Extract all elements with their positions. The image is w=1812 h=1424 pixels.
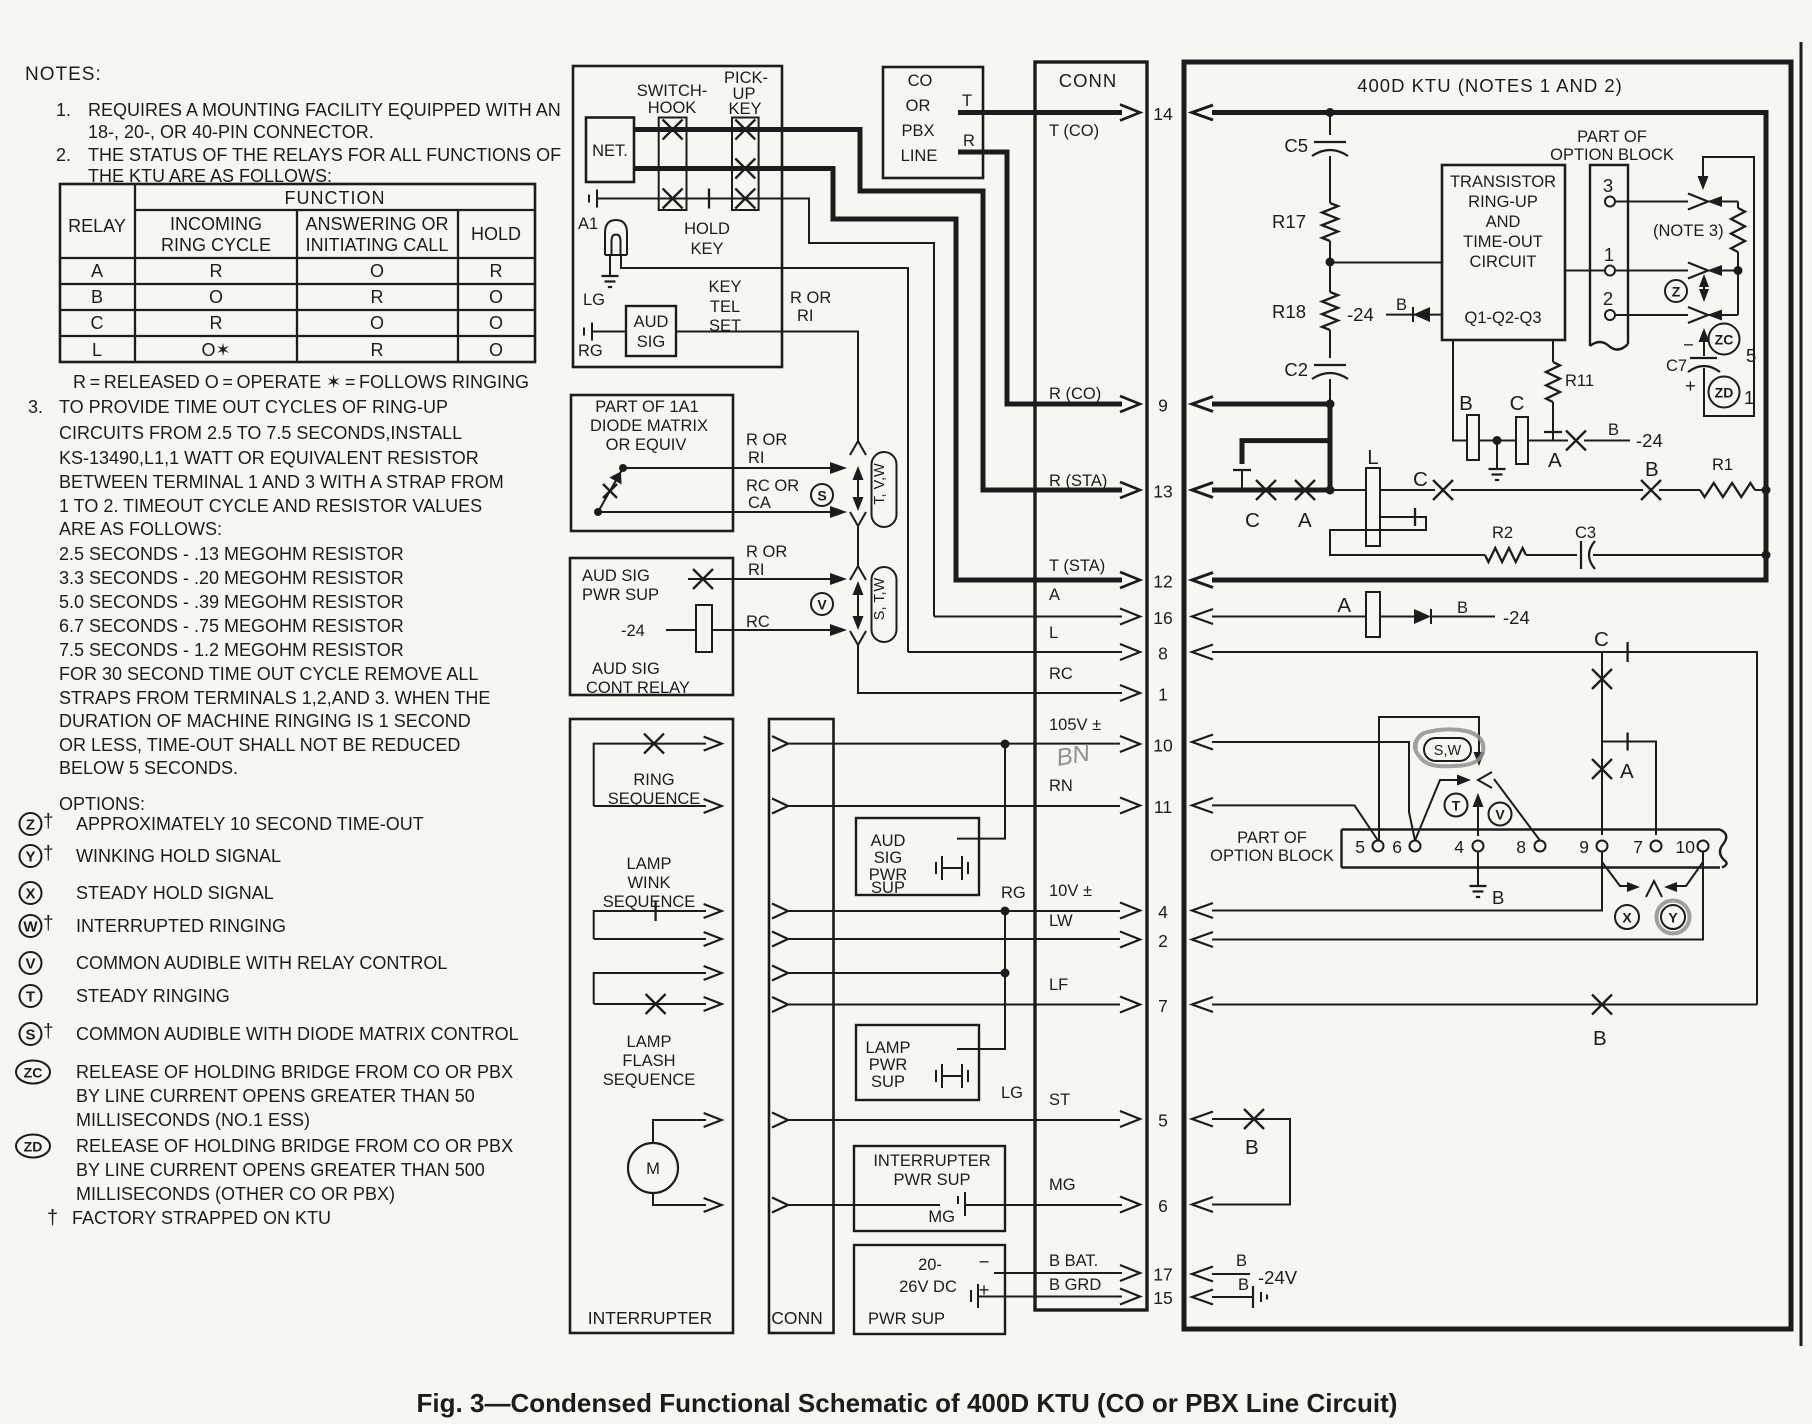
svg-text:A: A [1548,449,1562,472]
svg-text:R: R [210,313,223,333]
svg-text:FLASH: FLASH [622,1052,675,1070]
svg-text:M: M [646,1160,660,1178]
svg-text:B: B [1645,458,1659,481]
wire strap chain middle [850,512,866,526]
battery at B ground row [1252,1286,1254,1308]
svg-text:†: † [47,1207,58,1229]
svg-text:2.: 2. [56,145,71,165]
svg-text:R OR: R OR [746,431,787,449]
svg-text:16: 16 [1153,608,1172,628]
node option ZD [16,1135,50,1158]
svg-text:LG: LG [1001,1084,1023,1102]
relay contact break on branch [1233,469,1251,471]
svg-text:ARE AS FOLLOWS:: ARE AS FOLLOWS: [59,519,222,539]
node 400D KTU box [1184,62,1791,1329]
node option W [20,915,42,937]
svg-text:ZD: ZD [24,1139,43,1155]
svg-text:MILLISECONDS (NO.1 ESS): MILLISECONDS (NO.1 ESS) [76,1110,310,1130]
ground below B/C coils [1496,441,1498,470]
svg-text:8: 8 [1158,644,1168,664]
battery feed for lamp lead [588,195,590,203]
svg-text:SEQUENCE: SEQUENCE [608,790,701,808]
svg-text:PWR: PWR [869,1056,908,1074]
svg-text:T: T [26,989,35,1006]
svg-text:A: A [1049,586,1060,604]
svg-text:LAMP: LAMP [866,1039,911,1057]
svg-text:S,W: S,W [1434,743,1462,759]
svg-text:400D KTU (NOTES 1 AND 2): 400D KTU (NOTES 1 AND 2) [1357,75,1623,96]
node oval S,T,W [872,567,897,642]
svg-text:8: 8 [1516,837,1526,857]
svg-text:LINE: LINE [901,147,938,165]
wire lamp lead to terminal 8 L [908,651,1122,653]
svg-text:O✶: O✶ [201,340,230,360]
page edge artifact line [1800,42,1803,1346]
resistor R18 [1329,262,1331,292]
node option circle ZC [1709,324,1740,355]
wire lamp right leg to L lead [621,255,908,652]
svg-text:CO: CO [908,72,933,90]
node terminal 9 R (CO) [1120,396,1140,412]
svg-text:STRAPS FROM TERMINALS 1,2,AND: STRAPS FROM TERMINALS 1,2,AND 3. WHEN TH… [59,688,490,708]
svg-text:A: A [91,261,103,281]
switch arm arrow from option 6 [1415,780,1462,841]
svg-text:INITIATING CALL: INITIATING CALL [306,235,449,255]
svg-text:3.3 SECONDS - .20 MEGOHM RESIS: 3.3 SECONDS - .20 MEGOHM RESISTOR [59,568,404,588]
arrow from option 4 to switch [1477,801,1479,836]
wire LF row [1212,1004,1757,1006]
node option circle V [1489,803,1512,826]
svg-text:OPTION BLOCK: OPTION BLOCK [1550,146,1674,164]
wire interrupter conn lead [772,736,788,751]
ground LG [602,275,619,277]
node oval T,V,W [872,452,897,527]
node terminal 6 MG [1120,1197,1140,1213]
node terminal 16 A [1120,609,1140,625]
svg-text:ZC: ZC [1715,332,1734,348]
svg-text:R: R [371,287,384,307]
svg-text:COMMON AUDIBLE WITH RELAY CONT: COMMON AUDIBLE WITH RELAY CONTROL [76,953,447,973]
svg-text:S, T,W: S, T,W [872,577,888,620]
svg-text:-24: -24 [1347,304,1374,325]
svg-text:TO PROVIDE TIME OUT CYCLES OF: TO PROVIDE TIME OUT CYCLES OF RING-UP [59,397,448,417]
node option circle X [1615,905,1639,929]
wire L row [1212,652,1757,1005]
svg-text:C: C [1413,468,1428,491]
svg-text:6.7 SECONDS - .75 MEGOHM RESIS: 6.7 SECONDS - .75 MEGOHM RESISTOR [59,616,404,636]
node INTERRUPTER box [570,719,733,1333]
node terminal 10 105V ± [1120,736,1140,752]
svg-text:R2: R2 [1492,524,1513,542]
svg-text:B: B [91,287,103,307]
node option block terminal 7 [1651,841,1662,852]
node option Y [20,845,42,867]
svg-text:ANSWERING OR: ANSWERING OR [305,214,448,234]
svg-text:105V ±: 105V ± [1049,716,1101,734]
svg-text:C: C [1245,509,1260,532]
svg-text:7.5 SECONDS - 1.2 MEGOHM RESIS: 7.5 SECONDS - 1.2 MEGOHM RESISTOR [59,640,404,660]
node option circle ZD [1709,377,1740,408]
svg-text:B BAT.: B BAT. [1049,1252,1098,1270]
svg-text:T (STA): T (STA) [1049,557,1105,575]
svg-text:R18: R18 [1272,301,1306,322]
svg-text:R OR: R OR [746,543,787,561]
svg-text:COMMON AUDIBLE WITH DIODE MATR: COMMON AUDIBLE WITH DIODE MATRIX CONTROL [76,1024,519,1044]
svg-text:KEY: KEY [690,240,723,258]
wire T(CO) thick to terminal 14 [958,110,1122,115]
svg-text:R1: R1 [1712,456,1733,474]
node transistor ring-up box Q1-Q2-Q3 [1442,165,1565,340]
svg-text:X: X [25,886,35,903]
diode matrix element [619,464,627,472]
resistor (NOTE 3) [1737,202,1739,209]
node CONN connector column (interrupter) [769,719,834,1333]
node CO OR PBX LINE box [883,67,983,178]
svg-text:RELAY: RELAY [68,216,126,236]
svg-text:L: L [1367,446,1378,469]
svg-text:KEY: KEY [728,100,761,118]
svg-text:4: 4 [1158,902,1168,922]
node option S [20,1023,42,1045]
svg-text:PWR SUP: PWR SUP [868,1310,945,1328]
svg-text:(NOTE 3): (NOTE 3) [1653,222,1724,240]
wire R OR RI from diode matrix [623,467,838,469]
strap arrow from 10 [1676,862,1703,886]
node terminal 13 R (STA) [1120,482,1140,498]
svg-text:RELEASE OF HOLDING BRIDGE FROM: RELEASE OF HOLDING BRIDGE FROM CO OR PBX [76,1136,513,1156]
svg-text:1.: 1. [56,100,71,120]
wire lamp/hold-key lead [597,199,934,617]
node option circle Z [1665,280,1687,302]
wire interrupter conn lead [772,1113,788,1128]
svg-text:RI: RI [748,449,765,467]
svg-text:SIG: SIG [637,333,665,351]
svg-text:R: R [371,340,384,360]
node KEY TEL SET box [573,66,782,367]
wire T lead from NET (thick) [634,130,1122,491]
svg-text:5: 5 [1355,837,1365,857]
svg-text:W: W [23,919,38,936]
svg-text:AND: AND [1486,213,1521,231]
svg-text:2.5 SECONDS - .13 MEGOHM RESIS: 2.5 SECONDS - .13 MEGOHM RESISTOR [59,544,404,564]
svg-text:RG: RG [1001,884,1026,902]
svg-text:C2: C2 [1284,359,1308,380]
capacitor C2 [1329,330,1331,358]
wire interrupter conn lead [772,904,788,919]
ground B below option 4 [1477,852,1479,887]
wire RC OR CA from diode matrix [598,511,838,513]
svg-text:B: B [1459,392,1473,415]
svg-text:C: C [1594,628,1609,651]
svg-text:T: T [1452,798,1461,814]
wire MG lead [788,1204,940,1206]
svg-text:5: 5 [1158,1111,1168,1131]
node option ZC [16,1061,50,1084]
svg-text:-24V: -24V [1258,1267,1298,1288]
svg-text:FACTORY STRAPPED ON KTU: FACTORY STRAPPED ON KTU [72,1208,331,1228]
svg-text:WINK: WINK [627,874,670,892]
strap double arrow Z [1703,280,1705,296]
svg-text:RING-UP: RING-UP [1468,193,1538,211]
svg-text:SWITCH-: SWITCH- [637,82,708,100]
node option T [20,985,42,1007]
wire R(CO) thick to terminal 9 [958,152,1122,404]
node terminal 1 RC [1120,685,1140,701]
wire LW row up to option 10 [1212,852,1703,940]
lamp flash sequence contacts [594,973,706,1004]
svg-text:V: V [1495,807,1505,823]
svg-text:B: B [1236,1252,1247,1270]
svg-text:INTERRUPTED RINGING: INTERRUPTED RINGING [76,916,286,936]
svg-text:1: 1 [1158,685,1168,705]
node terminal 15 B GRD [1120,1289,1140,1305]
svg-text:Y: Y [25,849,35,866]
svg-text:SUP: SUP [871,1073,905,1091]
svg-text:RG: RG [578,342,603,360]
svg-text:FUNCTION: FUNCTION [285,188,386,208]
contact C on R(STA) row [1256,480,1276,500]
wire RN row to option 5 [1212,805,1378,840]
node AUD SIG PWR SUP box (mid) [856,818,979,895]
wire RG to AUD SIG [592,331,626,333]
node option block terminal 8 [1535,841,1546,852]
wire B GRD to terminal 15 [978,1296,1122,1298]
svg-text:DURATION OF MACHINE RINGING IS: DURATION OF MACHINE RINGING IS 1 SECOND [59,711,471,731]
svg-text:LF: LF [1049,976,1068,994]
contact A on R(STA) row [1295,480,1315,500]
svg-text:WINKING HOLD SIGNAL: WINKING HOLD SIGNAL [76,846,281,866]
svg-text:HOLD: HOLD [471,224,521,244]
svg-text:RI: RI [748,561,765,579]
svg-text:15: 15 [1153,1288,1172,1308]
node option block terminal 10 [1698,841,1709,852]
svg-text:OPTION BLOCK: OPTION BLOCK [1210,847,1334,865]
svg-text:CA: CA [748,494,771,512]
svg-text:C: C [1510,392,1525,415]
svg-text:CIRCUIT: CIRCUIT [1470,253,1537,271]
svg-text:17: 17 [1153,1265,1172,1285]
svg-text:−: − [1683,334,1694,355]
svg-text:AUD SIG: AUD SIG [592,660,660,678]
svg-text:O: O [489,313,503,333]
svg-text:NOTES:: NOTES: [25,64,102,85]
wire T(CO) row in KTU (thick loop) [1212,113,1766,581]
svg-text:RI: RI [797,307,814,325]
svg-text:PART OF: PART OF [1577,128,1647,146]
svg-text:T: T [962,92,972,110]
svg-text:LG: LG [583,291,605,309]
svg-text:ZD: ZD [1715,385,1734,401]
svg-text:18-, 20-, OR 40-PIN CONNECTOR.: 18-, 20-, OR 40-PIN CONNECTOR. [88,122,374,142]
svg-text:REQUIRES A MOUNTING FACILITY E: REQUIRES A MOUNTING FACILITY EQUIPPED WI… [88,100,561,120]
svg-text:RC OR: RC OR [746,477,799,495]
node S,W strap box [1379,717,1479,841]
node terminal 7 LF [1120,997,1140,1013]
svg-text:LW: LW [1049,912,1073,930]
svg-text:L: L [1049,624,1058,642]
node PART OF 1A1 DIODE MATRIX box [571,395,733,531]
svg-text:MG: MG [928,1208,955,1226]
node terminal 17 B BAT. [1120,1265,1140,1281]
node terminal 2 LW [1120,932,1140,948]
node option X [20,882,42,904]
wire interrupter conn lead [772,932,788,947]
svg-text:R OR: R OR [790,289,831,307]
svg-text:A1: A1 [578,215,598,233]
svg-text:TEL: TEL [710,298,740,316]
svg-text:PWR SUP: PWR SUP [582,586,659,604]
strap double arrow T,V,W [857,472,859,505]
svg-text:11: 11 [1154,797,1172,817]
svg-text:1 TO 2. TIMEOUT CYCLE AND RESI: 1 TO 2. TIMEOUT CYCLE AND RESISTOR VALUE… [59,496,482,516]
contact A on -24 row [1553,440,1568,442]
svg-text:V: V [817,597,827,613]
svg-text:NET.: NET. [592,142,628,160]
wire ST row loop to MG row [1212,1119,1290,1205]
svg-text:26V DC: 26V DC [899,1278,957,1296]
svg-text:PART OF: PART OF [1237,829,1307,847]
node terminal 12 T (STA) [1120,572,1140,588]
svg-text:5: 5 [1746,345,1756,366]
svg-text:6: 6 [1392,837,1402,857]
svg-text:R17: R17 [1272,211,1306,232]
relay coil L on R(STA) row [1330,489,1366,491]
L coil secondary path to R2/C3 [1330,517,1485,555]
svg-text:R: R [490,261,503,281]
svg-text:C7: C7 [1666,357,1687,375]
svg-text:Y: Y [1668,910,1678,926]
svg-text:CONN: CONN [771,1308,823,1328]
svg-text:R: R [963,132,975,150]
svg-text:DIODE MATRIX: DIODE MATRIX [590,417,708,435]
svg-text:PWR SUP: PWR SUP [893,1171,970,1189]
svg-text:R = RELEASED O = OPERATE ✶ =: R = RELEASED O = OPERATE ✶ = FOLLOWS RIN… [73,372,529,392]
wire option terminal 2 row [1615,314,1688,316]
wire transistor to option terminal 1 [1565,270,1605,272]
svg-text:ST: ST [1049,1091,1070,1109]
node option block terminal 6 [1410,841,1421,852]
svg-text:CONN: CONN [1059,70,1117,91]
svg-text:PART OF 1A1: PART OF 1A1 [595,398,699,416]
wire A relay row [1212,616,1366,618]
svg-text:SIG: SIG [874,849,902,867]
svg-text:4: 4 [1454,837,1464,857]
svg-text:OR LESS, TIME-OUT SHALL NOT BE: OR LESS, TIME-OUT SHALL NOT BE REDUCED [59,735,460,755]
battery MG [957,1196,959,1204]
svg-text:BY LINE CURRENT OPENS GREATER: BY LINE CURRENT OPENS GREATER THAN 500 [76,1160,485,1180]
svg-text:3.: 3. [28,397,43,417]
wire interrupter conn lead [772,997,788,1012]
wire lamp pwr sup to 10V [957,911,1005,1049]
ring sequence contacts [594,744,706,806]
battery LG in lamp pwr sup [935,1070,937,1082]
svg-text:C5: C5 [1284,135,1308,156]
relay coil A [1366,592,1380,637]
svg-text:THE STATUS OF THE RELAYS FOR A: THE STATUS OF THE RELAYS FOR ALL FUNCTIO… [88,145,561,165]
svg-text:CIRCUITS FROM 2.5 TO 7.5 SECON: CIRCUITS FROM 2.5 TO 7.5 SECONDS,INSTALL [59,423,462,443]
svg-text:R: R [210,261,223,281]
svg-text:-24: -24 [1503,607,1530,628]
svg-text:O: O [370,261,384,281]
svg-text:KEY: KEY [708,278,741,296]
wire option terminal 3 row [1615,201,1688,203]
svg-text:5.0 SECONDS - .39 MEGOHM RESIS: 5.0 SECONDS - .39 MEGOHM RESISTOR [59,592,404,612]
svg-text:7: 7 [1158,996,1168,1016]
svg-text:SEQUENCE: SEQUENCE [603,1071,696,1089]
svg-text:RC: RC [1049,665,1073,683]
svg-text:X: X [1622,910,1632,926]
wire transistor bottom left to relay row [1453,340,1467,441]
svg-text:AUD SIG: AUD SIG [582,567,650,585]
pencil scribble around Y [1657,901,1690,934]
wire to transistor circuit [1330,262,1442,264]
node terminal 5 ST [1120,1111,1140,1127]
wire B ground row [1212,1296,1253,1298]
contact C on branch to 9 [1601,652,1603,835]
capacitor C5 [1329,113,1331,136]
svg-text:10: 10 [1153,736,1173,756]
svg-text:3: 3 [1603,175,1613,196]
node option circle V [811,593,833,615]
wire option terminal 1 arrows [1688,263,1708,279]
svg-text:L: L [92,340,102,360]
resistor R11 [1552,340,1554,362]
node AUD SIG box [626,306,676,356]
svg-text:R (CO): R (CO) [1049,385,1101,403]
svg-text:†: † [43,1021,54,1042]
contact C (break) right of L [1380,489,1435,491]
svg-text:BETWEEN TERMINAL 1 AND 3 WITH: BETWEEN TERMINAL 1 AND 3 WITH A STRAP FR… [59,472,504,492]
svg-text:RC: RC [746,613,770,631]
wire to -24 [1584,440,1630,442]
node option block terminal 9 [1597,841,1608,852]
svg-text:SUP: SUP [871,879,905,897]
svg-text:S: S [25,1027,35,1044]
node option circle Y [1661,905,1685,929]
svg-text:B: B [1608,421,1619,439]
svg-text:B: B [1492,887,1504,908]
svg-text:†: † [43,843,54,864]
svg-text:AUD: AUD [871,832,906,850]
svg-text:14: 14 [1153,104,1173,124]
node 20-26V DC PWR SUP box [854,1245,1005,1334]
svg-text:LAMP: LAMP [627,1033,672,1051]
svg-text:O: O [489,287,503,307]
svg-text:C: C [91,313,104,333]
wire -24V row [1212,1273,1250,1275]
svg-text:B: B [1396,296,1407,314]
motor M [628,1143,678,1193]
svg-text:2: 2 [1158,931,1168,951]
wire RC from cont relay [712,629,838,631]
node option block strip [1590,165,1628,346]
switch arm to option 8 [1494,779,1540,841]
branch to terminal 7 [1602,742,1656,836]
svg-text:STEADY HOLD SIGNAL: STEADY HOLD SIGNAL [76,883,274,903]
svg-text:BELOW 5 SECONDS.: BELOW 5 SECONDS. [59,758,238,778]
svg-text:V: V [25,956,35,973]
node option block terminal 5 [1373,841,1384,852]
svg-text:B: B [1238,1276,1249,1294]
node option circle S [811,484,833,506]
svg-text:2: 2 [1603,288,1613,309]
wire MG to terminal 6 [965,1204,1122,1206]
svg-text:MG: MG [1049,1176,1076,1194]
svg-text:1: 1 [1744,387,1754,408]
svg-text:+: + [1685,375,1696,396]
wire interrupter conn lead [772,799,788,814]
svg-text:RING CYCLE: RING CYCLE [161,235,271,255]
